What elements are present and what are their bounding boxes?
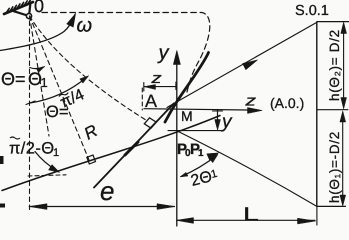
svg-text:(A.0.): (A.0.) (270, 95, 304, 111)
svg-text:1: 1 (41, 75, 48, 90)
svg-text:1: 1 (198, 148, 204, 159)
svg-text:L: L (243, 205, 259, 226)
svg-text:π/2-Θ: π/2-Θ (9, 140, 54, 158)
svg-text:ω: ω (77, 15, 93, 37)
svg-text:z: z (150, 70, 162, 87)
svg-text:h(Θ₂)= D/2: h(Θ₂)= D/2 (327, 29, 342, 101)
svg-text:z: z (244, 93, 257, 110)
svg-text:1: 1 (53, 147, 59, 159)
svg-text:h(Θ₁)=-D/2: h(Θ₁)=-D/2 (327, 131, 342, 203)
svg-text:Θ=: Θ= (1, 69, 26, 89)
svg-text:A: A (145, 91, 157, 111)
svg-text:e: e (100, 176, 114, 206)
svg-text:M: M (181, 108, 193, 124)
svg-text:y: y (157, 42, 170, 64)
svg-text:y: y (220, 112, 233, 133)
svg-text:S.0.1: S.0.1 (295, 3, 329, 19)
svg-text:0: 0 (34, 0, 44, 16)
